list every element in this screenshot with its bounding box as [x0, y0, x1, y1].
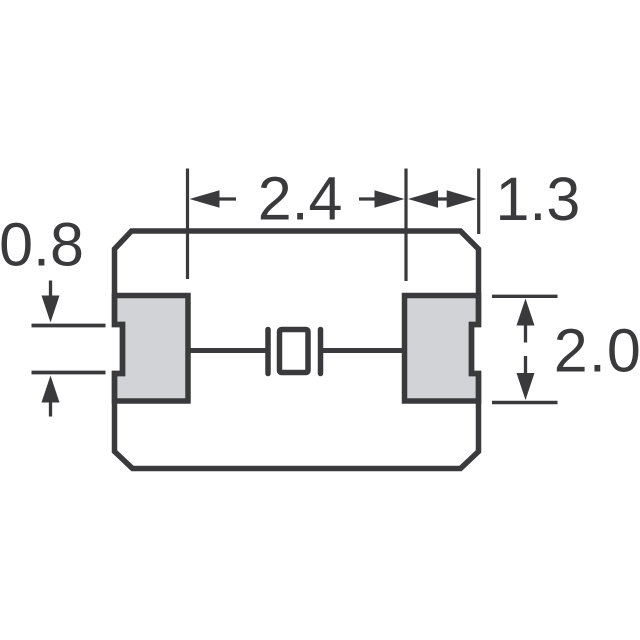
dim 2.0 top line — [492, 295, 558, 298]
dim 0.8 down arrow stem — [49, 281, 52, 299]
svg-text:1.3: 1.3 — [496, 165, 581, 233]
crystal Y1 right plate — [318, 330, 324, 374]
dim 2.0 down arrow head — [517, 373, 535, 400]
right pad P2 — [405, 296, 479, 402]
dim 2.0 up arrow head — [517, 299, 535, 326]
dim 0.8 top line — [32, 324, 106, 328]
dim 2.0 up arrow stem — [524, 323, 527, 343]
wire right — [323, 348, 405, 353]
dim 2.0 down arrow stem — [524, 356, 527, 374]
svg-text:2.0: 2.0 — [554, 316, 640, 384]
crystal Y1 left plate — [265, 330, 271, 374]
dim 1.3 right arrow — [447, 190, 477, 207]
extension line at right pad inner edge — [404, 169, 407, 282]
dim 0.8 up arrow stem — [49, 400, 52, 417]
dim 1.3 tail — [434, 197, 451, 200]
dim 0.8 up arrow head — [42, 376, 60, 403]
left pad P1 — [115, 296, 189, 402]
svg-text:2.4: 2.4 — [258, 164, 343, 232]
dim 2.4 left arrow — [190, 190, 220, 207]
svg-text:0.8: 0.8 — [0, 210, 84, 278]
wire left — [188, 348, 266, 353]
dim 2.4 right tail — [359, 197, 377, 200]
dim 1.3 left arrow — [408, 190, 438, 207]
dim 0.8 bottom line — [32, 371, 106, 375]
dim 0.8 down arrow head — [42, 296, 60, 323]
crystal Y1 body — [280, 330, 309, 373]
package outline — [115, 231, 479, 469]
dim 2.0 bottom line — [492, 401, 558, 404]
extension line at left pad inner edge — [186, 169, 189, 280]
dim 2.4 left tail — [220, 197, 237, 200]
dim 2.4 right arrow — [375, 190, 405, 207]
extension line at package right edge — [477, 169, 480, 235]
